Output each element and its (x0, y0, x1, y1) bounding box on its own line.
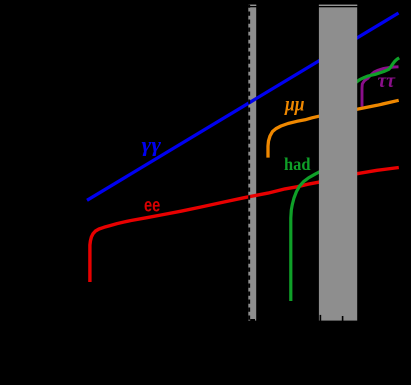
svg-text:had: had (284, 154, 311, 174)
bottom minor tick over wide band mid (342, 316, 344, 321)
svg-text:ττ: ττ (378, 70, 397, 92)
curve tautau (purple) (362, 67, 399, 107)
svg-text:μμ: μμ (284, 92, 304, 116)
top axis frame line (black, visible over bands) (0, 6, 411, 7)
dashed vertical threshold line (black over band) (248, 5, 250, 323)
narrow band light top strip (249, 5, 256, 6)
svg-text:ee: ee (144, 196, 160, 217)
curve mumu (orange) (268, 100, 399, 157)
wide band light top strip (319, 5, 357, 6)
wide grey band (319, 5, 357, 323)
curve ee (red) (90, 168, 399, 283)
curve had (green) (291, 58, 399, 301)
curve gammagamma (blue line) (87, 13, 399, 200)
narrow grey band (248, 5, 256, 323)
bottom axis frame line (black, visible over bands) (0, 321, 411, 323)
bottom minor tick over wide band left (320, 315, 322, 321)
bottom major tick over narrow band (250, 319, 255, 323)
svg-text:γγ: γγ (142, 135, 162, 157)
